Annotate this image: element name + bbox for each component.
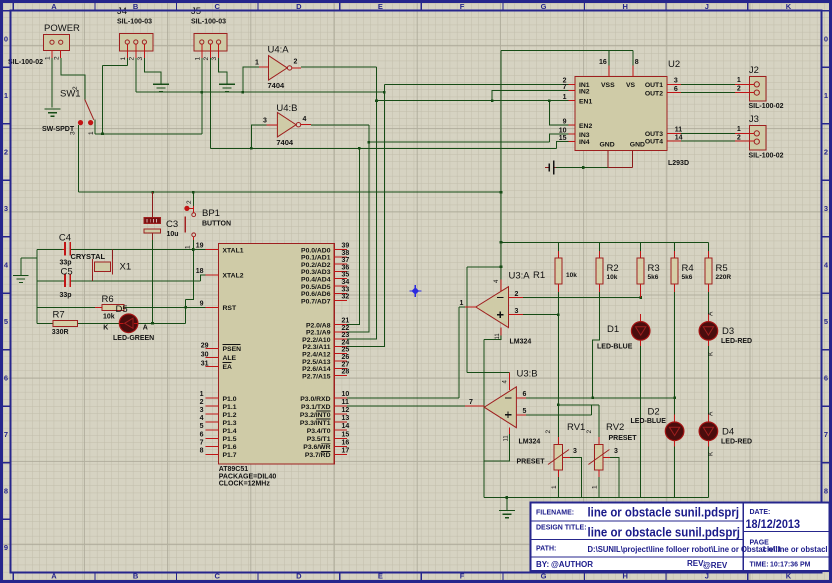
svg-text:1: 1 — [460, 300, 464, 307]
wire VCC vertical x=501 — [500, 50, 502, 279]
svg-text:3: 3 — [515, 308, 519, 315]
ground under J4 — [153, 84, 169, 91]
svg-text:25: 25 — [342, 347, 350, 354]
svg-text:SIL-100-03: SIL-100-03 — [117, 19, 152, 26]
preset RV1 — [517, 422, 586, 489]
svg-text:7404: 7404 — [268, 81, 286, 90]
svg-text:@AUTHOR: @AUTHOR — [551, 560, 593, 569]
wire SW1 output row — [95, 133, 202, 135]
svg-text:1: 1 — [88, 131, 95, 135]
svg-text:1: 1 — [194, 57, 201, 61]
svg-text:29: 29 — [201, 343, 209, 350]
svg-text:P3.7/RD: P3.7/RD — [305, 452, 331, 459]
svg-text:K: K — [708, 351, 715, 356]
svg-text:16: 16 — [599, 59, 607, 66]
svg-text:1: 1 — [4, 91, 8, 100]
resistor R1 — [533, 251, 577, 292]
wire J5 pin3 to ground — [219, 58, 228, 83]
svg-text:P0.5/AD5: P0.5/AD5 — [301, 284, 331, 291]
LED D2 blue — [631, 407, 684, 447]
wire D4 to bottom bus — [707, 447, 709, 498]
svg-text:8: 8 — [635, 59, 639, 66]
svg-text:C: C — [214, 572, 220, 581]
svg-text:1 of 1: 1 of 1 — [762, 545, 782, 554]
svg-text:10:17:36 PM: 10:17:36 PM — [770, 562, 811, 569]
svg-text:18: 18 — [196, 268, 204, 275]
svg-text:PACKAGE=DIL40: PACKAGE=DIL40 — [219, 473, 277, 480]
svg-text:P1.6: P1.6 — [223, 444, 237, 451]
LED D3 red — [699, 311, 752, 356]
resistor R7 — [52, 310, 78, 337]
wire U4:B out row to IN3 — [369, 134, 569, 142]
origin marker blue cross — [409, 285, 421, 297]
wire R2 zigzag to pin6 row — [593, 292, 600, 398]
svg-text:R3: R3 — [648, 263, 660, 274]
svg-text:R1: R1 — [533, 270, 545, 281]
resistor R6 — [95, 294, 124, 321]
connector J3 — [735, 114, 784, 160]
svg-text:EA: EA — [223, 364, 233, 371]
wire V1 vertical to P2.2 — [347, 67, 377, 339]
svg-text:11: 11 — [504, 435, 510, 442]
svg-text:1: 1 — [563, 94, 567, 101]
wire op-amp gnd chain — [484, 335, 509, 497]
connector J2 — [735, 65, 784, 110]
wire U4:A output to V1 — [301, 66, 376, 68]
svg-text:D2: D2 — [648, 407, 660, 418]
svg-text:24: 24 — [342, 339, 350, 346]
svg-text:18/12/2013: 18/12/2013 — [746, 517, 801, 531]
svg-text:35: 35 — [342, 272, 350, 279]
svg-text:SIL-100-02: SIL-100-02 — [749, 153, 784, 160]
svg-text:D: D — [296, 2, 302, 11]
svg-text:U4:A: U4:A — [268, 45, 290, 56]
svg-text:LED-RED: LED-RED — [721, 338, 752, 345]
svg-text:36: 36 — [342, 264, 350, 271]
connector J4 — [117, 6, 153, 61]
svg-text:1: 1 — [824, 91, 828, 100]
wire jog to U3:B pin5 — [526, 405, 599, 415]
svg-text:SIL-100-02: SIL-100-02 — [749, 103, 784, 110]
wire resistor rail y=242 — [501, 241, 708, 243]
svg-text:D3: D3 — [722, 326, 734, 337]
svg-text:FILENAME:: FILENAME: — [536, 510, 574, 517]
svg-text:37: 37 — [342, 257, 350, 264]
svg-text:D: D — [296, 572, 302, 581]
wire SW1 lever bottom down — [94, 120, 96, 134]
svg-text:XTAL1: XTAL1 — [223, 247, 244, 254]
wire U3:A output to P3.0 — [347, 307, 465, 398]
svg-text:P3.4/T0: P3.4/T0 — [307, 428, 331, 435]
wire R6 row — [37, 306, 206, 308]
svg-text:P2.3/A11: P2.3/A11 — [303, 344, 331, 351]
svg-text:BP1: BP1 — [202, 208, 220, 219]
svg-text:14: 14 — [342, 423, 350, 430]
svg-text:10k: 10k — [566, 272, 577, 279]
svg-text:5: 5 — [824, 317, 828, 326]
svg-text:7: 7 — [4, 430, 8, 439]
svg-text:OUT1: OUT1 — [645, 82, 663, 89]
wire U3:A minus row to R3 — [523, 297, 641, 299]
svg-text:K: K — [786, 572, 792, 581]
svg-text:D1: D1 — [607, 324, 619, 335]
svg-text:P1.7: P1.7 — [223, 452, 237, 459]
svg-text:3: 3 — [137, 57, 144, 61]
svg-text:12: 12 — [342, 407, 350, 414]
svg-text:2: 2 — [515, 291, 519, 298]
svg-text:P0.4/AD4: P0.4/AD4 — [301, 277, 331, 284]
svg-text:ALE: ALE — [223, 355, 237, 362]
wire OUT2 to J2 — [681, 92, 735, 94]
svg-text:A: A — [51, 572, 57, 581]
svg-text:7: 7 — [469, 399, 473, 406]
svg-text:6: 6 — [523, 391, 527, 398]
svg-text:LED-BLUE: LED-BLUE — [631, 418, 667, 425]
svg-text:K: K — [103, 325, 108, 332]
svg-text:RV2: RV2 — [606, 422, 624, 433]
svg-text:J: J — [705, 572, 709, 581]
op-amp U3:B LM324 — [465, 369, 540, 446]
ground under J5 — [219, 84, 235, 91]
wire C3 bottom column — [152, 240, 154, 323]
svg-text:@REV: @REV — [703, 561, 728, 570]
svg-text:26: 26 — [342, 354, 350, 361]
wire bus A y=92 — [136, 91, 385, 93]
svg-text:28: 28 — [342, 369, 350, 376]
svg-text:EN2: EN2 — [579, 123, 592, 130]
svg-text:A: A — [143, 325, 148, 332]
wire R5/D3 column — [707, 292, 709, 314]
capacitor C3 electrolytic — [144, 192, 179, 240]
svg-text:SIL-100-02: SIL-100-02 — [8, 59, 43, 66]
ground left of caps — [13, 275, 29, 282]
svg-text:P2.7/A15: P2.7/A15 — [302, 373, 331, 380]
svg-text:5: 5 — [200, 423, 204, 430]
svg-text:GND: GND — [630, 142, 645, 149]
svg-text:3: 3 — [824, 204, 828, 213]
svg-text:27: 27 — [342, 361, 350, 368]
svg-text:P1.0: P1.0 — [223, 396, 237, 403]
svg-text:P1.3: P1.3 — [223, 420, 237, 427]
svg-text:AT89C51: AT89C51 — [219, 466, 249, 473]
svg-text:2: 2 — [737, 135, 741, 142]
op-amp U3:A LM324 — [460, 271, 532, 346]
svg-text:P0.1/AD1: P0.1/AD1 — [301, 255, 331, 262]
svg-text:L293D: L293D — [668, 160, 689, 167]
wire rail drops to R1..R5 — [558, 242, 708, 251]
svg-text:0: 0 — [824, 35, 828, 44]
wire to IN4 — [557, 141, 569, 148]
svg-text:LM324: LM324 — [519, 439, 541, 446]
wire OUT1 to J2 — [681, 83, 735, 85]
svg-text:P2.5/A13: P2.5/A13 — [302, 359, 331, 366]
wire branch to EN2 — [549, 101, 568, 126]
svg-text:3: 3 — [614, 448, 618, 455]
resistor R5 — [705, 251, 731, 292]
svg-text:J4: J4 — [117, 6, 127, 17]
svg-text:J5: J5 — [191, 6, 201, 17]
wire V3 vertical to P2.1 — [347, 125, 369, 332]
LED D5 green — [103, 304, 154, 342]
preset RV2 — [586, 422, 637, 489]
svg-text:5k6: 5k6 — [682, 274, 693, 281]
svg-text:POWER: POWER — [44, 23, 80, 34]
wire V2 vertical IN1 to P2.3 — [347, 84, 384, 346]
svg-text:10: 10 — [559, 128, 567, 135]
svg-text:34: 34 — [342, 279, 350, 286]
svg-text:2: 2 — [586, 430, 593, 434]
wire J5 pin2 down — [209, 58, 211, 148]
svg-text:8: 8 — [4, 487, 8, 496]
svg-text:R6: R6 — [102, 294, 114, 305]
svg-text:3: 3 — [70, 131, 77, 135]
svg-text:H: H — [622, 2, 627, 11]
svg-text:J2: J2 — [749, 65, 759, 76]
svg-text:R2: R2 — [607, 263, 619, 274]
wire bottom ground bus — [484, 497, 708, 499]
svg-text:10k: 10k — [607, 274, 618, 281]
svg-text:P0.7/AD7: P0.7/AD7 — [301, 298, 331, 305]
svg-text:33: 33 — [342, 286, 350, 293]
connector POWER — [8, 23, 80, 66]
svg-text:K: K — [708, 451, 715, 456]
svg-text:5k6: 5k6 — [648, 274, 659, 281]
svg-text:7404: 7404 — [276, 138, 294, 147]
connector J5 — [191, 6, 227, 61]
battery cell symbol near U2 GND — [545, 160, 556, 174]
capacitor C4 — [59, 233, 72, 267]
svg-text:19: 19 — [196, 243, 204, 250]
svg-text:6: 6 — [4, 374, 8, 383]
svg-text:K: K — [786, 2, 792, 11]
resistor R3 — [637, 251, 659, 298]
svg-text:C3: C3 — [166, 219, 178, 230]
svg-text:P3.2/INT0: P3.2/INT0 — [300, 412, 331, 419]
svg-text:6: 6 — [200, 431, 204, 438]
svg-text:33p: 33p — [60, 292, 72, 299]
wire D1 column to bottom bus — [640, 346, 642, 498]
svg-text:4: 4 — [303, 116, 307, 123]
wire D3 to D4 — [707, 346, 709, 414]
svg-text:38: 38 — [342, 250, 350, 257]
svg-text:2: 2 — [203, 57, 210, 61]
svg-text:PRESET: PRESET — [609, 435, 638, 442]
wire sensor row y=148 — [210, 147, 556, 149]
svg-text:X1: X1 — [120, 262, 132, 273]
svg-text:15: 15 — [559, 135, 567, 142]
svg-text:TIME:: TIME: — [750, 562, 769, 569]
svg-text:CLOCK=12MHz: CLOCK=12MHz — [219, 481, 271, 488]
svg-text:P0.0/AD0: P0.0/AD0 — [301, 247, 331, 254]
svg-text:P1.4: P1.4 — [223, 428, 237, 435]
wire IN1 row — [384, 83, 568, 85]
svg-text:R4: R4 — [682, 263, 694, 274]
wire J5 pin1 down — [201, 58, 203, 134]
svg-text:16: 16 — [342, 439, 350, 446]
svg-text:5: 5 — [523, 408, 527, 415]
svg-text:U3:A: U3:A — [509, 271, 531, 282]
svg-text:CRYSTAL: CRYSTAL — [71, 252, 106, 261]
wire U2 gnd row — [556, 167, 608, 169]
svg-text:E: E — [378, 2, 383, 11]
wire POWER pin1 to ground — [51, 58, 53, 108]
capacitor C5 — [60, 267, 73, 300]
wire U4:A input — [243, 67, 259, 92]
svg-text:1: 1 — [592, 485, 599, 489]
wire U3:B output to P3.1 — [347, 405, 465, 407]
svg-text:RST: RST — [223, 305, 237, 312]
svg-text:LM324: LM324 — [510, 339, 532, 346]
svg-text:PATH:: PATH: — [536, 546, 556, 553]
ground under POWER — [45, 109, 61, 116]
svg-text:15: 15 — [342, 431, 350, 438]
svg-text:2: 2 — [72, 86, 79, 90]
wire RV2 wiper down — [610, 457, 619, 497]
wire U3:A plus row to R1/RV1 — [523, 314, 558, 316]
svg-text:P3.5/T1: P3.5/T1 — [307, 436, 331, 443]
inverter U4:B 7404 — [263, 103, 311, 147]
svg-text:39: 39 — [342, 243, 350, 250]
svg-text:P3.6/WR: P3.6/WR — [303, 444, 330, 451]
svg-text:P3.0/RXD: P3.0/RXD — [300, 396, 330, 403]
wire ground tap left — [21, 258, 37, 275]
svg-text:U4:B: U4:B — [276, 103, 297, 114]
svg-text:BUTTON: BUTTON — [202, 221, 231, 228]
svg-text:7: 7 — [200, 439, 204, 446]
microcontroller U1 AT89C51 — [196, 243, 350, 488]
svg-text:P2.6/A14: P2.6/A14 — [302, 366, 331, 373]
motor driver U2 L293D — [559, 59, 689, 168]
svg-text:2: 2 — [200, 399, 204, 406]
svg-text:1: 1 — [120, 57, 127, 61]
svg-text:10u: 10u — [167, 231, 179, 238]
svg-text:G: G — [541, 2, 547, 11]
svg-text:1: 1 — [45, 56, 52, 60]
svg-text:DATE:: DATE: — [750, 509, 771, 516]
svg-text:B: B — [133, 2, 139, 11]
svg-text:P0.3/AD3: P0.3/AD3 — [301, 269, 331, 276]
svg-text:9: 9 — [200, 300, 204, 307]
svg-text:PSEN: PSEN — [223, 346, 242, 353]
svg-text:DESIGN TITLE:: DESIGN TITLE: — [536, 525, 587, 532]
wire V4 vertical to P2.0 — [347, 148, 359, 324]
wire J4 pin2 to bus A — [135, 58, 137, 92]
svg-text:P1.2: P1.2 — [223, 412, 237, 419]
svg-text:31: 31 — [201, 361, 209, 368]
wire XTAL2 row — [71, 275, 206, 281]
wire XTAL1 row — [71, 249, 206, 251]
svg-text:21: 21 — [342, 318, 350, 325]
wire ground drop — [506, 498, 508, 510]
svg-text:2: 2 — [128, 57, 135, 61]
svg-text:P2.4/A12: P2.4/A12 — [302, 352, 331, 359]
wire R1-RV1 column — [557, 292, 559, 437]
svg-text:3: 3 — [200, 407, 204, 414]
svg-text:3: 3 — [211, 57, 218, 61]
wire OUT3 to J3 — [681, 132, 735, 134]
svg-text:7: 7 — [824, 430, 828, 439]
svg-text:0: 0 — [4, 35, 8, 44]
wire RV2 bottom — [598, 477, 600, 498]
svg-text:8: 8 — [200, 447, 204, 454]
svg-text:VS: VS — [626, 82, 636, 89]
title block — [531, 503, 830, 572]
LED D4 red — [699, 411, 752, 456]
svg-text:IN3: IN3 — [579, 132, 590, 139]
svg-text:GND: GND — [600, 142, 615, 149]
svg-text:17: 17 — [342, 447, 350, 454]
svg-text:22: 22 — [342, 325, 350, 332]
svg-text:6: 6 — [674, 86, 678, 93]
svg-text:14: 14 — [675, 135, 683, 142]
svg-text:7: 7 — [563, 84, 567, 91]
svg-text:32: 32 — [342, 294, 350, 301]
svg-text:11: 11 — [342, 399, 350, 406]
wire VSS/VS top — [501, 50, 633, 65]
svg-text:13: 13 — [342, 415, 350, 422]
svg-text:10: 10 — [342, 391, 350, 398]
svg-text:LED-BLUE: LED-BLUE — [597, 344, 633, 351]
svg-text:10k: 10k — [103, 314, 115, 321]
svg-text:1: 1 — [185, 245, 192, 249]
wire U3:B pin6 row to D2 — [526, 397, 675, 399]
svg-text:EN1: EN1 — [579, 98, 592, 105]
svg-text:line or obstacle sunil.pdsprj: line or obstacle sunil.pdsprj — [588, 525, 741, 540]
svg-text:11: 11 — [495, 333, 501, 340]
svg-text:G: G — [541, 572, 547, 581]
svg-text:4: 4 — [200, 415, 204, 422]
wire caps left bus — [37, 250, 65, 324]
svg-text:J3: J3 — [749, 114, 759, 125]
svg-text:3: 3 — [263, 118, 267, 125]
svg-text:2: 2 — [54, 56, 61, 60]
wire R7 D5 row — [37, 322, 186, 324]
svg-text:2: 2 — [545, 430, 552, 434]
svg-text:1: 1 — [737, 126, 741, 133]
svg-text:P3.1/TXD: P3.1/TXD — [301, 404, 331, 411]
svg-text:P0.6/AD6: P0.6/AD6 — [301, 291, 331, 298]
svg-text:IN2: IN2 — [579, 89, 590, 96]
svg-text:IN4: IN4 — [579, 139, 590, 146]
svg-text:9: 9 — [4, 543, 8, 552]
svg-text:P2.0/A8: P2.0/A8 — [306, 322, 331, 329]
wire VCC bus y=192 — [78, 191, 501, 193]
svg-text:C5: C5 — [61, 267, 73, 278]
svg-text:SIL-100-03: SIL-100-03 — [191, 19, 226, 26]
wire riser to U4:B input — [251, 125, 266, 148]
svg-text:XTAL2: XTAL2 — [223, 273, 244, 280]
wire EN1 row — [377, 100, 569, 102]
wire J4 pin1 drop — [103, 58, 128, 134]
svg-text:2: 2 — [186, 200, 193, 204]
svg-text:1: 1 — [551, 485, 558, 489]
resistor R4 — [671, 251, 694, 292]
svg-text:1: 1 — [200, 391, 204, 398]
wire POWER pin2 to SW1 — [61, 58, 85, 100]
svg-text:P3.3/INT1: P3.3/INT1 — [300, 420, 331, 427]
wire branch to U3:B power — [467, 267, 509, 373]
svg-text:A: A — [51, 2, 57, 11]
wire OUT4 to J3 — [681, 140, 735, 142]
svg-text:J: J — [705, 2, 709, 11]
svg-text:11: 11 — [675, 127, 683, 134]
switch SW1 — [42, 86, 95, 135]
svg-text:RV1: RV1 — [567, 422, 585, 433]
svg-text:E: E — [378, 572, 383, 581]
svg-text:F: F — [460, 2, 465, 11]
svg-text:U2: U2 — [668, 59, 680, 70]
svg-text:OUT3: OUT3 — [645, 131, 663, 138]
